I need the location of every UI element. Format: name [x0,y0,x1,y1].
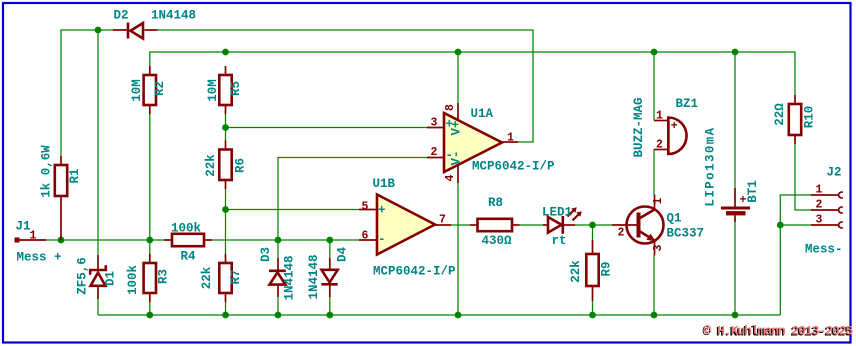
svg-text:1N4148: 1N4148 [151,9,196,23]
wire D4 leads [329,240,331,315]
svg-text:R10: R10 [803,106,817,129]
svg-text:Mess-: Mess- [805,243,843,257]
svg-text:V-: V- [450,150,464,165]
wire U1 pin4 down to rail [457,183,459,315]
resistor R9 [569,240,614,301]
svg-text:rt: rt [552,234,567,248]
svg-text:10M: 10M [206,79,220,102]
wire column R5/R6/R7 x=225.5 [225,114,227,315]
svg-text:1: 1 [507,132,514,145]
node rail D4 [326,312,333,319]
node D2-R1 junction [95,27,102,34]
svg-text:LIPo130mA: LIPo130mA [704,126,718,206]
wire main Mess+ y=240 [46,239,359,241]
wire BZ1 to Q1 collector x=654 [653,52,655,195]
svg-text:J1: J1 [16,220,31,234]
svg-text:8: 8 [444,104,457,111]
svg-text:430Ω: 430Ω [482,234,513,248]
svg-text:4: 4 [444,174,457,181]
copyright text [703,323,854,339]
svg-text:22k: 22k [204,154,218,177]
node LED-R9-Q1 [589,222,596,229]
wire U1A pin2 input y=157.5 to D3 column [278,158,427,241]
svg-text:+: + [378,204,386,218]
svg-text:22k: 22k [569,260,583,283]
node J2 pin1-pin3 [777,222,784,229]
svg-text:ZF5,6: ZF5,6 [76,257,90,295]
connector J2 [805,166,843,257]
svg-text:1: 1 [656,110,663,123]
svg-text:Mess +: Mess + [17,251,62,265]
resistor R4 [164,222,212,264]
node top rail BZ1 [651,49,658,56]
svg-text:1N4148: 1N4148 [283,255,297,300]
resistor R3 [126,254,171,302]
svg-text:U1A: U1A [471,107,494,121]
op-amp U1A [427,103,555,183]
svg-text:+: + [671,120,678,133]
svg-text:D4: D4 [336,247,350,263]
svg-text:-: - [378,233,386,247]
node top rail BT1 [732,49,739,56]
op-amp U1B [359,177,456,279]
svg-text:Q1: Q1 [667,212,682,226]
diode D3 1N4148 [259,247,297,301]
svg-text:5: 5 [362,201,369,214]
svg-text:2: 2 [816,199,823,212]
battery BT1 [704,126,761,222]
node rail Q1 emitter [651,312,658,319]
svg-text:J2: J2 [827,166,842,180]
node R5-R6 to pin3 [222,124,229,131]
node top rail R5 [222,49,229,56]
svg-text:V+: V+ [450,120,464,135]
svg-text:22k: 22k [200,266,214,289]
svg-text:10M: 10M [130,79,144,102]
wire column R2/R3 x=149.8 [149,114,151,315]
wire column D1 x=98 [97,30,99,315]
node R2-R3 main [146,237,153,244]
diode D2 1N4148 [113,9,196,39]
wire bottom rail y=315 [98,314,780,316]
svg-text:R8: R8 [488,196,503,210]
svg-text:BZ1: BZ1 [676,97,699,111]
svg-text:3: 3 [816,214,823,227]
resistor R2 [130,66,167,114]
resistor R7 [200,254,243,302]
svg-text:BT1: BT1 [746,180,760,203]
svg-text:6: 6 [362,230,369,243]
node rail U1 pin4 [455,312,462,319]
wire D3 leads [277,240,279,315]
svg-text:2: 2 [618,227,625,240]
svg-text:MCP6042-I/P: MCP6042-I/P [472,160,555,174]
LED LED1 [542,206,582,249]
wire U1 pin8 power column [457,52,459,103]
svg-text:100k: 100k [126,265,140,296]
node rail R7 [222,312,229,319]
svg-text:3: 3 [652,244,665,251]
svg-text:R2: R2 [153,81,167,96]
svg-text:R6: R6 [234,158,248,173]
wire U1B pin5 input y=209.5 [226,209,360,211]
svg-text:2: 2 [656,139,663,152]
svg-text:BUZZ-MAG: BUZZ-MAG [632,97,646,157]
resistor R5 [206,66,243,114]
resistor R1 [40,145,83,240]
wire BT1 column x=735 [734,52,736,315]
svg-text:7: 7 [439,214,446,227]
wire R9 branch x=592 [592,225,594,315]
svg-text:MCP6042-I/P: MCP6042-I/P [373,265,456,279]
node rail D3 [275,312,282,319]
svg-text:R1: R1 [68,168,82,183]
svg-text:100k: 100k [171,222,202,236]
wire U1B out to R8 LED Q1 base y=225 [451,224,612,226]
wire U1A pin3 input y=127.5 [226,127,428,129]
svg-text:1: 1 [816,184,823,197]
svg-text:D2: D2 [114,9,129,23]
node J1-R1 [58,237,65,244]
svg-text:R9: R9 [600,261,614,276]
node D3 main [275,237,282,244]
wire R10 to J2 pin2 [795,144,811,210]
svg-text:22Ω: 22Ω [773,103,787,126]
wire J2 pin1/pin3 column x=780.3 [780,195,811,315]
wire feedback top: U1A output up and left to R1/D2 [61,30,533,156]
node rail BT1 [732,312,739,319]
node rail R9 [589,312,596,319]
svg-text:1: 1 [30,230,37,243]
svg-text:1k 0,6W: 1k 0,6W [40,145,54,198]
node D4 main [326,237,333,244]
svg-text:R5: R5 [229,81,243,96]
resistor R8 [470,196,520,248]
node rail R3 [146,312,153,319]
connector J1 [15,220,62,265]
buzzer BZ1 [632,97,698,158]
svg-text:3: 3 [431,117,438,130]
resistor R10 [773,95,817,144]
svg-text:1: 1 [652,197,665,204]
svg-text:R4: R4 [181,250,197,264]
svg-text:BC337: BC337 [667,227,705,241]
node top rail U1 V+ [455,49,462,56]
svg-text:LED1: LED1 [542,206,572,220]
resistor R6 [204,141,248,190]
svg-text:D1: D1 [104,271,118,286]
transistor Q1 BC337 [612,195,704,256]
zener diode D1 ZF5,6 [76,255,118,299]
svg-text:2: 2 [431,146,438,159]
svg-text:© H.Kuhlmann 2013-2025: © H.Kuhlmann 2013-2025 [704,323,854,338]
svg-text:1N4148: 1N4148 [307,254,321,299]
svg-text:D3: D3 [259,247,273,262]
svg-text:R7: R7 [229,269,243,284]
wire top rail y=52 [150,52,795,95]
svg-text:U1B: U1B [373,177,396,191]
diode D4 1N4148 [307,247,350,300]
svg-text:R3: R3 [157,269,171,284]
wire Q1 emitter down [653,256,655,316]
node R6-R7 to pin5 [222,206,229,213]
